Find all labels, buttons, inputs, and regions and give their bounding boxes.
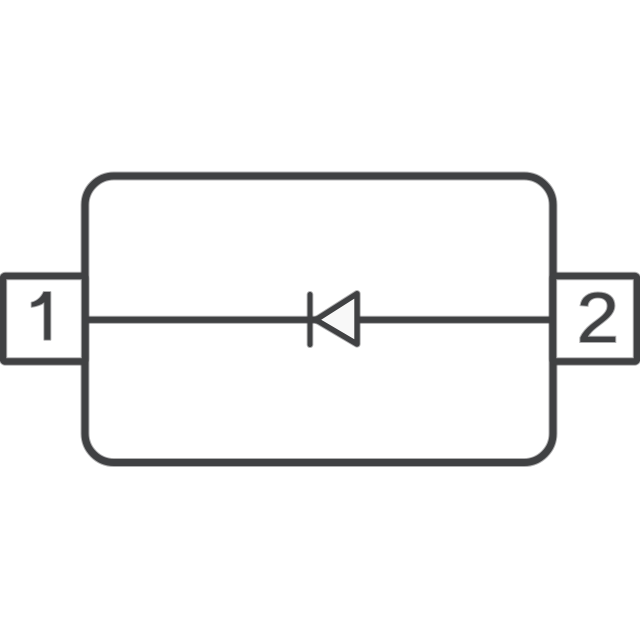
pin 2 label "2" xyxy=(576,278,619,357)
svg-text:2: 2 xyxy=(576,278,619,357)
pin 1 pad xyxy=(3,276,85,362)
package body fill xyxy=(85,176,553,463)
pin 1 label "1" xyxy=(32,292,51,340)
diode cathode bar xyxy=(307,294,314,344)
wire xyxy=(85,316,553,324)
package body outline xyxy=(85,176,553,463)
diode triangle (anode) xyxy=(316,294,357,344)
pin 2 pad xyxy=(553,276,637,362)
